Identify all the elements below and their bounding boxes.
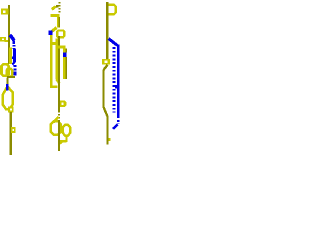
wire A5 blue solid segment — [13, 49, 16, 57]
wire A7 blue solid segment — [13, 59, 16, 62]
pad A4 — [11, 127, 16, 133]
wire B19 main vertical through rings — [58, 120, 60, 151]
wire B6 elbow diagonal — [52, 28, 57, 32]
wire B8 left elbow — [50, 86, 57, 89]
via B2 left large ring — [51, 121, 61, 135]
wire B4 horizontal bar — [51, 14, 60, 17]
wire A13 olive connector vertical — [6, 78, 8, 84]
wire A9 blue dashed segment — [14, 65, 17, 71]
wire A3 blue diagonal — [10, 35, 15, 44]
wire C2 blue diagonal — [109, 39, 118, 46]
wire C8 jog diagonal — [104, 65, 108, 70]
pad B2 blue square — [63, 52, 66, 57]
wire B13 right bar — [56, 46, 65, 49]
wire C10 lower diagonal — [103, 107, 107, 116]
wire A10 blue solid tip — [14, 71, 17, 75]
wire B2 flag dark tip — [56, 5, 59, 7]
wire C1 vertical trace — [106, 2, 108, 65]
wire B10 middle diagonal join — [57, 80, 60, 84]
pad A1 — [1, 9, 9, 15]
via B3 right ring — [63, 125, 70, 136]
wire B5 two-tone vertical — [57, 17, 60, 28]
wire B1 flag diagonal — [52, 6, 57, 10]
wire B7 left vertical — [50, 35, 52, 86]
wire B18 bottom elbow — [60, 140, 66, 144]
wire A8 blue diagonal tip — [12, 62, 14, 64]
wire A1 vertical trace — [8, 5, 10, 64]
pad B3 P-shaped pad — [60, 101, 66, 107]
wire C7 blue diagonal tail tip — [113, 124, 118, 129]
wire A6 blue hook — [10, 56, 16, 59]
wire A15 lower vertical trace — [10, 112, 12, 155]
wire A14 blue insert — [6, 84, 9, 91]
pad A3 loop pad — [8, 106, 13, 112]
wire C4 blue nub — [115, 85, 117, 88]
wire C5 blue dashed vertical — [113, 47, 116, 113]
via A3 big loop ring — [3, 86, 13, 109]
via B1 ring pad — [57, 31, 64, 38]
wire B12 dotted lower — [58, 111, 60, 120]
pad A2 — [0, 37, 6, 41]
pad C3 tick — [109, 138, 111, 141]
wire B17 under-ring vertical — [65, 135, 67, 143]
wire C3 long blue vertical — [117, 45, 120, 117]
wire B3 dotted vertical — [59, 2, 61, 14]
wire A12 olive connector horizontal — [7, 76, 15, 78]
pad B1 blue square — [49, 30, 53, 35]
wire C6 blue dashed tail — [117, 116, 120, 124]
wire C9 middle vertical — [102, 69, 104, 107]
wire A11 yellow bar beside trace — [9, 48, 12, 65]
wire B6b cross bar — [50, 42, 58, 45]
wire B16 diagonal into left ring — [54, 117, 59, 122]
wire B14 right branch upper — [63, 49, 67, 53]
wire B9 middle vertical — [56, 38, 58, 79]
pad C1 half-ring — [109, 5, 116, 15]
pad C2 small pad — [102, 59, 110, 64]
wire B11 main dark vertical — [58, 36, 60, 111]
wire A2 connector — [5, 40, 8, 42]
via A2 small ring — [7, 69, 13, 77]
via A1 large ring — [2, 64, 9, 76]
wire A4 blue dashed segment — [13, 45, 16, 49]
wire C11 lower vertical — [106, 116, 108, 145]
wire B15 right branch lower — [63, 57, 67, 79]
